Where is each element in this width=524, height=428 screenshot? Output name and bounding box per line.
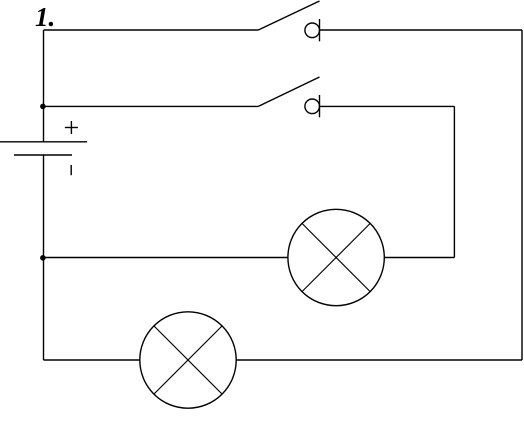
- wire left rail lower (battery - down to bottom wire): [43, 155, 45, 360]
- label 1.: [35, 4, 55, 31]
- node junction A (dot): [40, 104, 46, 110]
- wire left rail upper (battery + up to top wire): [43, 30, 45, 142]
- wire right rail vertical: [521, 30, 523, 360]
- wire inner rail vertical: [453, 106, 455, 257]
- wire lamp L1 to node B: [44, 257, 289, 259]
- wire inner rail to lamp L1: [384, 257, 454, 259]
- wire lamp L2 to left rail: [44, 359, 140, 361]
- switch S1 contact post: [319, 19, 321, 41]
- lamp L2: [140, 312, 236, 408]
- battery B1 negative plate: [14, 154, 72, 156]
- battery B1 positive plate: [0, 141, 87, 143]
- battery - label: [70, 165, 72, 175]
- node junction B (dot): [40, 255, 46, 261]
- switch S1 contact circle: [305, 23, 320, 38]
- switch S1 lever: [258, 1, 319, 30]
- switch S2 contact circle: [305, 99, 320, 114]
- battery + label: [65, 121, 78, 134]
- wire top horizontal from battery+ to switch S1 pivot: [44, 29, 259, 31]
- wire S1 to right rail: [320, 29, 523, 31]
- wire node A to switch S2 pivot: [44, 105, 259, 107]
- lamp L1: [288, 209, 384, 305]
- switch S2 contact post: [319, 95, 321, 117]
- wire bottom right horizontal to lamp L2: [236, 359, 522, 361]
- switch S2 lever: [258, 77, 319, 106]
- wire S2 to inner rail: [320, 105, 455, 107]
